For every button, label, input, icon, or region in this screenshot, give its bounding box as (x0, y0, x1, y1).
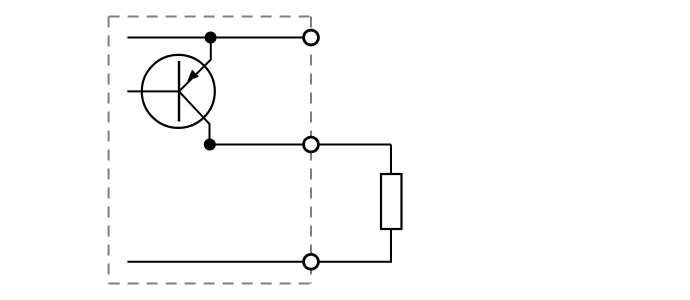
terminal pin: middle (emitter) (304, 137, 319, 152)
wire: bottom rail (127, 261, 391, 263)
transistor Q1 base bar (178, 61, 180, 122)
terminal pin: top (collector) (304, 30, 319, 45)
transistor Q1 emitter arrow (PNP, pointing into base) (187, 70, 199, 82)
junction node: collector to top rail (205, 32, 217, 44)
junction node: emitter to middle rail (204, 139, 216, 151)
transistor Q1 base lead wire (127, 90, 179, 92)
wire: external node down to resistor R1 top (390, 145, 392, 176)
wire: emitter rail to external node (210, 144, 392, 146)
transistor Q1 body circle (142, 55, 215, 128)
resistor R1 (381, 174, 402, 229)
transistor Q1 emitter lead (to top rail) (179, 38, 211, 92)
terminal pin: bottom (304, 254, 319, 269)
wire: resistor R1 bottom lead (390, 228, 392, 263)
transistor Q1 collector lead (to emitter rail) (179, 91, 210, 144)
wire: top collector rail (127, 37, 311, 39)
subcircuit boundary dashed box (109, 17, 311, 284)
